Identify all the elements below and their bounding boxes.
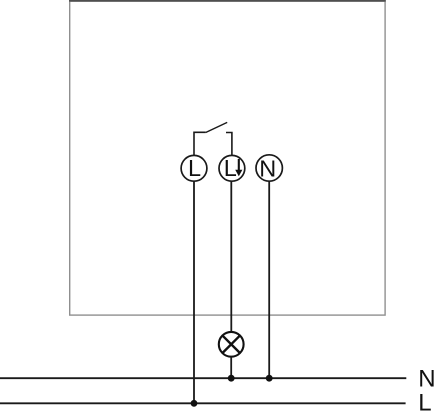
N bus line <box>0 377 406 379</box>
wire: terminal L-switched down to lamp <box>230 181 232 332</box>
wire: lamp down to N bus <box>230 357 232 379</box>
device outline top edge (darker) <box>69 0 386 2</box>
svg-text:L: L <box>224 155 237 181</box>
terminal L <box>181 155 207 181</box>
svg-text:N: N <box>259 155 276 181</box>
switch S (open blade) <box>206 122 228 132</box>
junction dot: N wire to N bus <box>266 375 273 382</box>
junction dot: lamp wire to N bus <box>228 375 235 382</box>
svg-text:L: L <box>418 390 431 412</box>
lamp E1 <box>219 332 244 357</box>
junction dot: L wire to L bus <box>191 400 198 407</box>
wire: terminal L down to L bus <box>193 181 195 403</box>
wire: terminal N down to N bus <box>268 181 270 378</box>
down arrow inside L-switched terminal <box>235 159 242 176</box>
svg-text:N: N <box>418 366 435 393</box>
terminal N <box>256 155 282 182</box>
svg-text:L: L <box>188 155 201 181</box>
wire: switch left riser (L terminal to switch pivot) <box>194 132 206 155</box>
L bus line <box>0 402 406 404</box>
wire: switch right contact riser (to L-arrow terminal) <box>226 133 232 156</box>
device outline <box>70 1 385 315</box>
terminal L-switched (L with down arrow) <box>219 155 245 181</box>
